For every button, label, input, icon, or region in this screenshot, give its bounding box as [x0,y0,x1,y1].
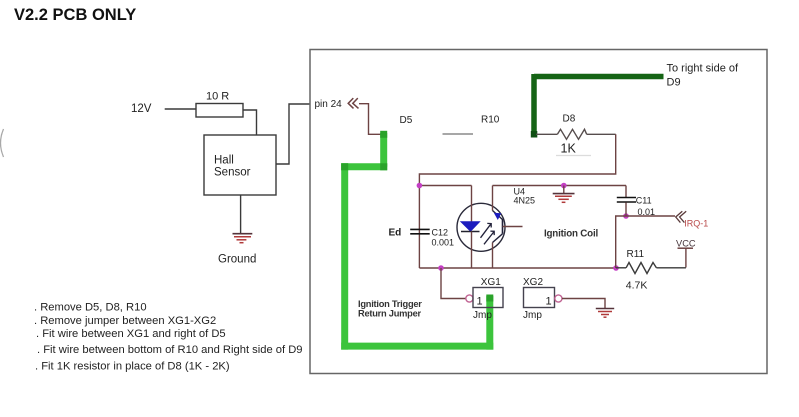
LED lead top [471,186,473,223]
LED lead bottom [471,232,473,269]
wire C11 to IRQ-1 and down to R11 [616,216,675,268]
svg-text:XG2: XG2 [523,277,543,288]
wire XG1 drop from bottom rail [441,268,466,299]
transistor base bar [502,219,504,234]
svg-text:To right side of: To right side of [667,63,739,75]
collector blue arrow [494,213,501,220]
resistor D8 (1K fitted) [536,129,616,139]
LED cathode bar [461,231,480,233]
wire green caps [341,131,493,302]
svg-text:D5: D5 [400,115,413,126]
left-edge arc artifact [1,129,4,157]
svg-text:VCC: VCC [676,238,696,248]
svg-text:Ground: Ground [218,254,256,266]
resistor R11 [616,263,686,274]
ground (near U4) [553,186,575,203]
svg-text:Sensor: Sensor [214,167,251,179]
svg-text:. Fit 1K resistor in place of: . Fit 1K resistor in place of D8 (1K - 2… [35,361,230,373]
transistor collector [492,186,494,211]
svg-text:Ignition Trigger: Ignition Trigger [358,299,422,309]
ground (Hall sensor) [233,234,253,243]
wire 12V to R (10R) [165,108,196,110]
svg-text:pin 24: pin 24 [315,99,343,110]
svg-text:XG1: XG1 [481,277,501,288]
wire rail left segment (to LED anode) [419,185,471,187]
svg-text:12V: 12V [131,103,152,115]
svg-text:Jmp: Jmp [473,310,492,321]
LED triangle [461,222,480,231]
svg-text:C12: C12 [432,228,449,238]
svg-text:Ignition Coil: Ignition Coil [544,229,598,240]
svg-text:Jmp: Jmp [523,310,542,321]
wire 10R to Hall Sensor [243,110,257,135]
base lead stub [503,226,523,228]
svg-text:1: 1 [477,296,483,308]
photon arrow 1 [481,223,495,244]
capacitor C12 [410,229,430,233]
opto-isolator U4 4N25 [457,186,523,269]
jumper XG1 [466,295,473,302]
wire green jumper (XG1 to right of D5) [341,133,493,350]
wire pin24 to D5 area [359,104,382,135]
svg-text:Hall: Hall [214,155,234,167]
Hall Sensor box U (Hall) [204,135,276,195]
wire Hall output to pin 24 [276,104,311,164]
svg-text:4.7K: 4.7K [626,280,648,292]
junction node dots [417,183,423,189]
schematic sheet border [310,50,767,374]
wire D8 right down to top rail [419,134,615,185]
svg-text:. Fit wire between XG1 and rig: . Fit wire between XG1 and right of D5 [36,328,226,340]
port chevron IRQ-1 [676,211,687,222]
svg-text:1: 1 [546,296,552,308]
instruction notes [34,302,303,373]
svg-text:Return Jumper: Return Jumper [358,309,422,319]
svg-text:V2.2 PCB ONLY: V2.2 PCB ONLY [14,6,136,24]
wire left vertical (C12 branch) [418,186,420,269]
ground (XG2) [596,309,614,318]
svg-text:Ed: Ed [389,228,402,239]
wire rail right segment (collector to C11) [493,185,627,187]
port chevron pin24 [348,98,358,108]
svg-text:D8: D8 [563,114,576,125]
svg-text:. Remove jumper between XG1-XG: . Remove jumper between XG1-XG2 [34,315,216,327]
capacitor C11 [617,186,636,217]
svg-text:C11: C11 [636,196,652,206]
svg-text:R11: R11 [627,249,645,260]
svg-text:D9: D9 [667,77,681,89]
svg-text:10 R: 10 R [206,91,229,103]
wire dark green (bottom of R10 to right side of D9) [534,74,664,135]
svg-text:R10: R10 [481,115,500,126]
svg-text:0.001: 0.001 [432,238,455,248]
jumper XG2 [524,288,555,308]
wire bottom rail [419,267,616,269]
svg-text:. Remove D5, D8, R10: . Remove D5, D8, R10 [34,302,147,314]
svg-text:IRQ-1: IRQ-1 [684,218,708,228]
svg-text:1K: 1K [561,142,577,156]
resistor 10R body [196,104,243,118]
wire XG2 to ground [562,299,605,309]
transistor emitter [493,234,503,243]
wire R10 removed placeholder line [443,133,474,135]
svg-text:4N25: 4N25 [514,196,536,206]
wire ghost artifact under 1K [556,155,591,157]
svg-text:. Fit wire between bottom of R: . Fit wire between bottom of R10 and Rig… [37,344,303,356]
wire Hall to ground [240,195,242,234]
